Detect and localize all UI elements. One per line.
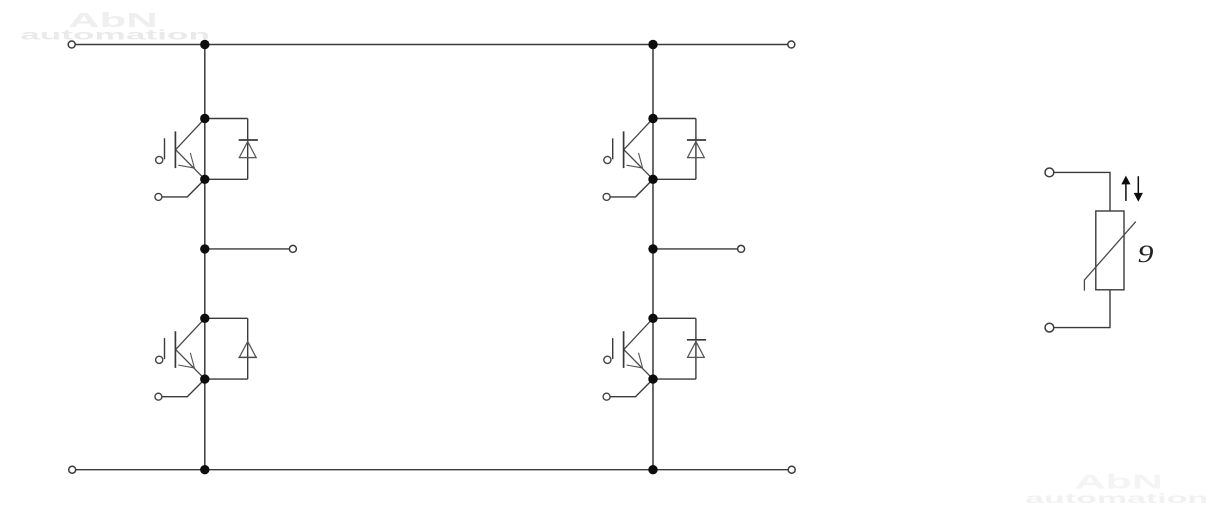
- terminal phase output 2: [738, 245, 745, 252]
- junction Q1 collector / DC+: [200, 40, 209, 49]
- auxiliary emitter terminal of Q3: [603, 193, 610, 200]
- junction phase node 2: [648, 244, 657, 253]
- svg-text:automation: automation: [20, 28, 210, 44]
- gate lead of Q1: [164, 138, 166, 159]
- IGBT Q2: [175, 318, 204, 379]
- junction Q4 emitter / DC-: [648, 465, 657, 474]
- auxiliary emitter terminal of Q1: [155, 193, 162, 200]
- wire diode branch vertical D1: [247, 119, 249, 180]
- wire thermistor bottom lead: [1054, 290, 1110, 328]
- junction Q2 emitter / DC-: [200, 465, 209, 474]
- junction Q3 emitter node: [648, 175, 657, 184]
- diode D3: [687, 140, 706, 158]
- junction Q3 collector / DC+: [648, 40, 657, 49]
- auxiliary emitter wire of Q4: [610, 379, 653, 397]
- auxiliary emitter wire of Q1: [162, 179, 205, 197]
- wire collector to diode D3: [653, 118, 696, 120]
- terminal DC- left: [69, 466, 76, 473]
- wire top rail (+DC bus): [72, 44, 792, 46]
- terminal thermistor top: [1045, 168, 1054, 177]
- watermark bottom-right "AbN automation" (decorative): [1025, 470, 1208, 507]
- wire bottom rail (-DC bus): [72, 469, 792, 471]
- thermistor R1 (NTC) body: [1096, 211, 1124, 290]
- wire diode to emitter D3: [653, 178, 696, 180]
- wire diode to emitter D4: [653, 378, 696, 380]
- auxiliary emitter wire of Q3: [610, 179, 653, 197]
- bidirectional temperature arrows: [1121, 176, 1143, 202]
- wire phase output 2: [653, 248, 737, 250]
- svg-text:9: 9: [1138, 241, 1154, 268]
- junction Q1 emitter node: [200, 175, 209, 184]
- thermistor R1 NTC stroke: [1084, 222, 1135, 291]
- wire collector to diode D4: [653, 317, 696, 319]
- diode D4: [687, 340, 706, 358]
- wire thermistor top lead: [1054, 172, 1110, 211]
- wire diode branch vertical D4: [695, 318, 697, 379]
- junction Q1 collector node: [200, 114, 209, 123]
- gate terminal G of Q4: [604, 356, 611, 363]
- auxiliary emitter terminal of Q2: [155, 393, 162, 400]
- wire diode to emitter D1: [205, 178, 248, 180]
- auxiliary emitter terminal of Q4: [603, 393, 610, 400]
- terminal thermistor bottom: [1045, 323, 1054, 332]
- diode D2: [238, 341, 257, 357]
- terminal DC+ left: [68, 41, 75, 48]
- wire phase output 1: [205, 248, 289, 250]
- terminal DC- right: [788, 466, 795, 473]
- watermark top-left "AbN automation" (decorative): [20, 9, 210, 43]
- junction Q2 emitter node: [200, 374, 209, 383]
- svg-text:automation: automation: [1025, 491, 1208, 507]
- gate lead of Q3: [612, 138, 614, 159]
- junction Q4 collector node: [648, 314, 657, 323]
- wire phase leg 1 vertical bus: [204, 45, 206, 470]
- wire diode branch vertical D2: [247, 318, 249, 379]
- wire collector to diode D1: [205, 118, 248, 120]
- gate terminal G of Q3: [604, 156, 611, 163]
- gate lead of Q4: [612, 338, 614, 359]
- svg-text:AbN: AbN: [1074, 470, 1163, 493]
- wire collector to diode D2: [205, 317, 248, 319]
- wire diode to emitter D2: [205, 378, 248, 380]
- IGBT Q3: [624, 119, 653, 180]
- junction Q2 collector node: [200, 314, 209, 323]
- auxiliary emitter wire of Q2: [162, 379, 205, 397]
- junction Q3 collector node: [648, 114, 657, 123]
- junction phase node 1: [200, 244, 209, 253]
- gate terminal G of Q1: [156, 156, 163, 163]
- IGBT Q4: [624, 318, 653, 379]
- terminal phase output 1: [289, 245, 296, 252]
- junction Q4 emitter node: [648, 374, 657, 383]
- gate terminal G of Q2: [156, 356, 163, 363]
- wire phase leg 2 vertical bus: [652, 45, 654, 470]
- wire diode branch vertical D3: [695, 119, 697, 180]
- gate lead of Q2: [164, 338, 166, 359]
- IGBT Q1: [175, 119, 204, 180]
- terminal DC+ right: [788, 41, 795, 48]
- diode D1: [239, 140, 258, 158]
